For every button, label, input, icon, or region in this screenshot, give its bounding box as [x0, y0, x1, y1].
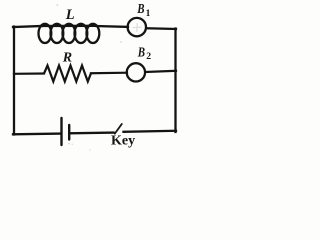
scan speck near battery [68, 143, 70, 145]
scan speck above coil [56, 4, 58, 6]
wire: left vertical branch [13, 27, 15, 135]
wire: inductor to lamp B1 [96, 25, 128, 28]
svg-text:B: B [136, 1, 144, 17]
svg-text:R: R [62, 50, 72, 65]
lamp B2 [127, 63, 145, 81]
switch (key) blade [115, 124, 122, 134]
wire: resistor to lamp B2 [91, 72, 127, 75]
svg-text:B: B [137, 44, 145, 60]
inductor L [39, 24, 100, 43]
resistor R [44, 66, 91, 82]
wire: lamp B1 to right vertical [147, 27, 176, 30]
svg-text:L: L [65, 7, 75, 23]
wire: bottom segment from left corner to battery [13, 132, 61, 135]
scan speck below bottom wire [89, 149, 90, 150]
wire: battery to switch [70, 131, 114, 134]
svg-text:2: 2 [146, 51, 151, 62]
svg-text:1: 1 [146, 9, 151, 19]
svg-text:Key: Key [111, 134, 135, 149]
wire: switch to bottom right corner [124, 131, 177, 132]
wire: lamp B2 to right vertical [146, 71, 176, 72]
wire: top segment from left corner to inductor [13, 26, 42, 27]
battery cell: short plate [68, 125, 70, 140]
battery cell: long plate [60, 118, 62, 145]
node: junction of middle branch with left vertical [14, 72, 44, 75]
wire: right vertical branch [174, 29, 176, 133]
lamp B1 faint filament cross [133, 23, 142, 32]
lamp B1 [128, 18, 146, 36]
scan speck left of B2 label [120, 41, 122, 43]
scan speck near battery 2 [72, 144, 73, 145]
